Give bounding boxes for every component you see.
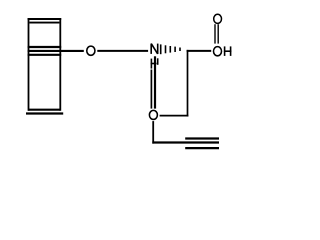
- ring-box middle band line 2 merging into bond to O1: [28, 50, 84, 52]
- bond O2 to CH2 (ring bottom): [160, 115, 189, 117]
- atom H of OH hydroxyl label: [224, 46, 232, 56]
- alkyne triple bond upper line: [185, 137, 219, 139]
- bond O1 to N: [97, 50, 148, 52]
- ring-box top inner line (double bond): [29, 22, 59, 24]
- double bond N down to O2 (right line): [154, 56, 156, 108]
- ring-box left vertical edge: [28, 18, 30, 111]
- bond propargyl CH2 to alkyne (horizontal, includes center line of triple bond): [152, 141, 219, 143]
- atom O carbonyl oxygen label (top): [214, 14, 222, 23]
- atom O of OH hydroxyl label: [214, 47, 222, 56]
- ring-box top outer line: [28, 18, 62, 20]
- atom O1 ether oxygen label: [87, 46, 95, 55]
- ring-box bottom outer line: [26, 112, 63, 114]
- bond stereocenter to carboxyl OH: [187, 50, 212, 52]
- carboxyl C=O double bond (two vertical lines): [215, 24, 218, 43]
- ring-box middle band line 1: [28, 46, 62, 48]
- atom O2 ring oxygen label: [149, 110, 157, 119]
- bond stereocenter down to CH2 (ring right side): [187, 50, 189, 117]
- alkyne triple bond lower line: [185, 147, 219, 149]
- atom N label: [151, 44, 158, 54]
- ring-box middle band line 3: [28, 54, 62, 56]
- atom H label on N: [151, 58, 158, 68]
- ring-box bottom inner line (double bond): [29, 109, 61, 111]
- bond O2 down to propargyl CH2: [152, 121, 154, 144]
- double bond N down to O2 (left line): [150, 70, 152, 109]
- ring-box right vertical edge: [59, 18, 61, 111]
- hashed wedge bond N to stereocenter (5 ticks): [161, 44, 180, 54]
